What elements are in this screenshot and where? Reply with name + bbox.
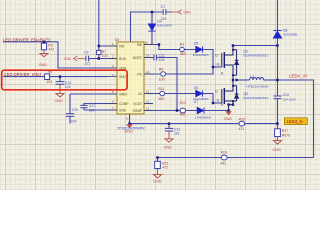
- svg-text:U3: U3: [115, 38, 119, 42]
- svg-text:GND: GND: [272, 148, 281, 152]
- svg-text:VREF: VREF: [119, 92, 128, 96]
- svg-text:BSZ440N08NS3G: BSZ440N08NS3G: [243, 53, 269, 57]
- svg-text:15: 15: [146, 54, 150, 58]
- svg-text:LED DRIVER_ENABLE2: LED DRIVER_ENABLE2: [3, 37, 51, 42]
- svg-text:BOOT: BOOT: [133, 56, 142, 60]
- svg-text:GND: GND: [153, 180, 162, 184]
- svg-text:1N4148WS: 1N4148WS: [193, 53, 209, 57]
- svg-text:GND: GND: [39, 63, 48, 67]
- svg-text:12: 12: [146, 100, 150, 104]
- svg-text:SW: SW: [137, 43, 142, 47]
- svg-text:LO: LO: [138, 92, 143, 96]
- svg-text:BSZ440N08NS3G: BSZ440N08NS3G: [243, 96, 269, 100]
- svg-text:SOMP: SOMP: [133, 109, 142, 113]
- svg-text:TPS61042PWPR: TPS61042PWPR: [117, 127, 145, 131]
- svg-text:GND: GND: [224, 117, 233, 121]
- svg-text:471: 471: [85, 62, 91, 66]
- svg-text:103: 103: [102, 54, 108, 58]
- svg-text:G: G: [217, 62, 220, 66]
- svg-text:C19: C19: [72, 108, 78, 112]
- svg-text:SS5100BL: SS5100BL: [283, 32, 298, 36]
- svg-text:C9: C9: [84, 51, 88, 55]
- svg-text:D7: D7: [194, 100, 198, 104]
- svg-text:G: G: [217, 98, 220, 102]
- svg-text:GND: GND: [64, 57, 72, 61]
- svg-text:224: 224: [71, 120, 77, 124]
- svg-text:104: 104: [89, 108, 95, 112]
- svg-text:482: 482: [180, 112, 186, 116]
- svg-text:VIN: VIN: [119, 44, 125, 48]
- svg-text:472: 472: [162, 165, 168, 169]
- svg-text:14: 14: [146, 70, 150, 74]
- svg-text:482: 482: [158, 97, 164, 101]
- svg-text:D5: D5: [194, 42, 198, 46]
- svg-text:RUN: RUN: [119, 57, 127, 61]
- svg-text:482: 482: [180, 52, 186, 56]
- svg-text:D6: D6: [194, 86, 198, 90]
- svg-text:GND: GND: [55, 99, 64, 103]
- svg-text:104 100V: 104 100V: [283, 97, 297, 101]
- svg-text:LED4_V+: LED4_V+: [289, 73, 308, 78]
- svg-text:R1: R1: [180, 42, 184, 46]
- svg-text:HPB1303-680M: HPB1303-680M: [246, 85, 268, 89]
- svg-text:R19: R19: [221, 151, 227, 155]
- svg-text:BAV20WS: BAV20WS: [157, 24, 171, 28]
- svg-text:PG: PG: [137, 72, 142, 76]
- svg-text:1N4148WS: 1N4148WS: [195, 115, 211, 119]
- svg-text:101: 101: [174, 132, 180, 136]
- svg-text:L1: L1: [250, 74, 254, 78]
- svg-text:R13: R13: [180, 101, 186, 105]
- svg-text:GND: GND: [119, 108, 127, 112]
- svg-text:103: 103: [46, 80, 52, 84]
- svg-text:R070: R070: [282, 133, 290, 137]
- svg-text:13: 13: [146, 90, 150, 94]
- svg-text:R11: R11: [158, 87, 164, 91]
- svg-text:472: 472: [48, 48, 54, 52]
- svg-text:16: 16: [145, 41, 149, 45]
- svg-text:GND: GND: [183, 10, 191, 14]
- svg-text:11: 11: [146, 107, 149, 111]
- svg-text:LED DRIVER_IADJ: LED DRIVER_IADJ: [4, 72, 41, 77]
- svg-text:LED4_S-: LED4_S-: [287, 119, 305, 124]
- svg-text:GND: GND: [164, 145, 173, 149]
- svg-text:441: 441: [221, 162, 227, 166]
- svg-text:C7: C7: [161, 5, 165, 9]
- svg-text:VOUT: VOUT: [133, 102, 142, 106]
- svg-text:COMP: COMP: [119, 102, 129, 106]
- svg-text:R5: R5: [159, 68, 163, 72]
- svg-text:R15: R15: [239, 117, 245, 121]
- svg-text:104: 104: [65, 85, 71, 89]
- svg-text:100: 100: [159, 77, 165, 81]
- svg-text:471: 471: [239, 127, 245, 131]
- svg-text:C17: C17: [89, 104, 95, 108]
- svg-text:104: 104: [159, 58, 165, 62]
